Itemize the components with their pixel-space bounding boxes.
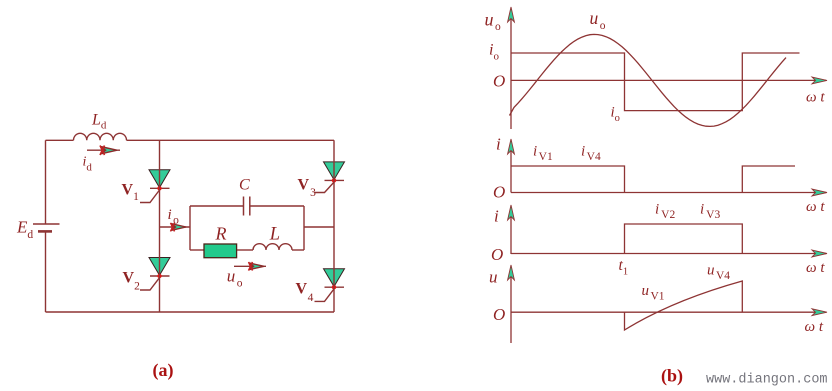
resistor R: [204, 244, 237, 258]
thyristor V1: [140, 170, 170, 203]
svg-text:V4: V4: [296, 281, 314, 305]
wire left leg V1 V2: [159, 140, 161, 312]
waveform2 vertical axis: [510, 141, 512, 193]
svg-text:L: L: [269, 225, 280, 245]
svg-text:O: O: [493, 305, 505, 324]
thyristor V3: [315, 162, 345, 193]
waveform3 pulse iV2 iV3: [625, 224, 743, 254]
svg-text:uV1: uV1: [642, 283, 665, 303]
wire R to L: [237, 249, 253, 251]
wire left upper: [45, 140, 47, 224]
current arrow id: [87, 146, 120, 156]
svg-text:C: C: [239, 177, 250, 194]
wire top left: [46, 139, 74, 141]
svg-text:(b): (b): [661, 366, 683, 387]
waveform1 horizontal axis arrowhead: [812, 77, 827, 84]
wire load bottom branch left: [190, 249, 204, 251]
waveform1 sine curve uo: [510, 34, 787, 126]
capacitor C: [244, 197, 250, 216]
waveform2 pulse iV1 iV4: [511, 166, 795, 193]
waveform4 vertical axis: [510, 267, 512, 343]
inductor Ld: [74, 133, 127, 140]
voltage arrow uo: [234, 262, 266, 271]
svg-text:www.diangon.com: www.diangon.com: [706, 373, 828, 388]
svg-text:Ld: Ld: [91, 112, 107, 132]
svg-text:i: i: [496, 135, 501, 154]
svg-text:O: O: [493, 183, 505, 202]
svg-text:u: u: [489, 268, 498, 287]
svg-text:R: R: [215, 224, 227, 244]
svg-text:uo: uo: [590, 8, 606, 32]
waveform3 vertical axis arrowhead: [508, 205, 515, 220]
wire right leg V3 V4: [333, 140, 335, 312]
waveform1 square wave io: [511, 53, 800, 111]
svg-text:ω t: ω t: [805, 319, 824, 335]
svg-text:O: O: [491, 245, 503, 264]
waveform4 curve uV1 uV4: [625, 281, 743, 330]
svg-text:O: O: [493, 72, 505, 91]
svg-text:V1: V1: [122, 182, 140, 204]
wire load top branch left: [190, 205, 243, 207]
svg-text:io: io: [168, 207, 180, 227]
wire load left connector: [160, 226, 191, 228]
svg-text:iV1: iV1: [533, 144, 553, 164]
svg-text:(a): (a): [153, 360, 174, 381]
svg-text:Ed: Ed: [16, 218, 33, 242]
svg-text:uo: uo: [485, 10, 502, 34]
waveform3 horizontal axis: [511, 253, 826, 255]
wire load right edge: [303, 206, 305, 250]
svg-text:i: i: [494, 207, 499, 226]
battery Ed plate short: [38, 230, 52, 233]
svg-text:ω t: ω t: [806, 199, 825, 215]
waveform2 vertical axis arrowhead: [508, 139, 515, 154]
waveform1 vertical axis: [510, 9, 512, 129]
wire load left edge: [189, 206, 191, 250]
svg-text:ω t: ω t: [806, 260, 825, 276]
svg-text:uV4: uV4: [707, 263, 730, 283]
battery Ed plate long: [33, 223, 60, 225]
current arrow io: [171, 223, 187, 232]
svg-text:io: io: [489, 42, 499, 63]
waveform2 horizontal axis: [511, 192, 826, 194]
waveform2 horizontal axis arrowhead: [812, 189, 827, 196]
svg-text:uo: uo: [227, 267, 243, 290]
thyristor V2: [140, 258, 170, 291]
wire top right: [127, 139, 335, 141]
thyristor V4: [315, 269, 345, 302]
svg-text:io: io: [611, 105, 620, 125]
wire load right connector: [304, 226, 334, 228]
waveform1 vertical axis arrowhead: [508, 7, 515, 22]
wire load bottom branch right: [292, 249, 304, 251]
waveform4 horizontal axis arrowhead: [812, 309, 827, 316]
wire load top branch right: [250, 205, 304, 207]
svg-text:V3: V3: [298, 177, 317, 200]
inductor L: [253, 244, 292, 250]
wire bottom: [46, 311, 335, 313]
svg-text:iV4: iV4: [581, 144, 601, 164]
waveform3 vertical axis: [510, 207, 512, 254]
waveform4 horizontal axis: [511, 311, 826, 313]
waveform1 horizontal axis: [511, 79, 826, 81]
svg-text:ω t: ω t: [806, 90, 825, 106]
svg-text:V2: V2: [123, 270, 141, 293]
svg-text:id: id: [83, 155, 93, 174]
waveform4 vertical axis arrowhead: [508, 265, 515, 280]
wire left lower: [45, 231, 47, 312]
svg-text:iV2: iV2: [655, 202, 675, 222]
svg-text:t1: t1: [619, 257, 629, 278]
svg-text:iV3: iV3: [700, 202, 720, 222]
waveform3 horizontal axis arrowhead: [812, 250, 827, 257]
